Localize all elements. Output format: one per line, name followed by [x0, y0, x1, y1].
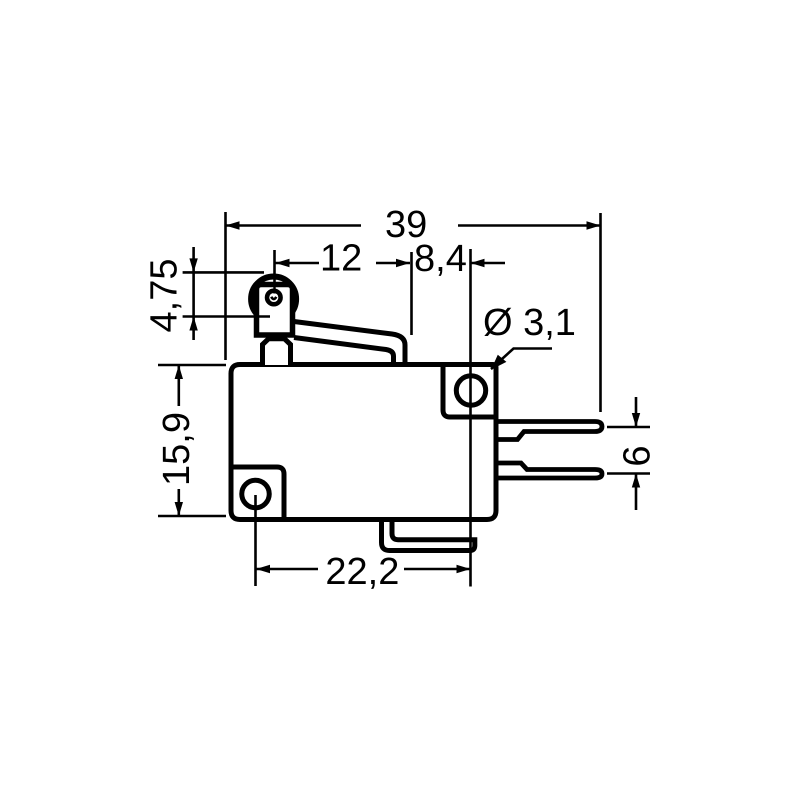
extension/centre line through top-right hole (x=470.5) [469, 249, 472, 587]
dim 6 bottom extension line [607, 472, 650, 475]
dim 6 line above [635, 397, 638, 427]
dim 39 left extension line [224, 212, 227, 360]
roller centre line [273, 250, 276, 306]
plunger dome [263, 339, 291, 365]
bottom-left hole box [231, 467, 284, 520]
bottom-left mounting hole [242, 480, 270, 508]
arrow 15,9 bottom (points down) [175, 502, 183, 516]
arrow 15,9 top (points up) [175, 365, 183, 379]
roller centre line over pin [273, 286, 275, 294]
terminal 2 (lower) [496, 463, 602, 478]
arrow 39 right [587, 221, 601, 229]
arrow 6 bottom (points up) [632, 474, 640, 488]
arrow 6 top (points down) [632, 413, 640, 427]
svg-text:4,75: 4,75 [144, 259, 186, 333]
roller pin [267, 291, 281, 305]
dim 6 top extension line [607, 426, 650, 429]
arrow 4,75 top (points down) [189, 258, 197, 272]
dim 4,75 vertical line [192, 247, 195, 340]
dim 39 right extension line [599, 213, 602, 412]
svg-text:6: 6 [617, 445, 659, 466]
svg-text:8,4: 8,4 [414, 238, 467, 280]
roller wheel [251, 277, 296, 322]
dim 15,9 bottom extension line (body bottom) [158, 515, 226, 518]
terminal 1 (upper) [496, 422, 602, 440]
lever top edge [294, 322, 405, 364]
dim 15,9 line upper segment [178, 365, 181, 406]
lever bottom edge [294, 338, 394, 364]
svg-text:22,2: 22,2 [325, 551, 399, 593]
arrow 22,2 left [256, 565, 270, 573]
dim 4,75 top extension line (roller top) [183, 271, 264, 274]
svg-text:12: 12 [320, 238, 362, 280]
arrow 4,75 bottom (points up) [189, 317, 197, 331]
arrow 12 left [276, 259, 290, 267]
dim 12 line right segment [376, 262, 410, 265]
pin notch [271, 297, 276, 299]
dim 22,2 line left segment [256, 568, 318, 571]
top-right hole box [443, 365, 496, 418]
dim 39 line left segment [226, 224, 362, 227]
top-right mounting hole [456, 376, 485, 405]
arrow leader 3,1 [491, 355, 506, 370]
extension line lever end (x=411.5) [410, 252, 413, 335]
svg-text:Ø 3,1: Ø 3,1 [483, 302, 576, 344]
roller bracket [257, 285, 293, 336]
dim 22,2 left extension line (hole centre) [254, 495, 257, 586]
dim 22,2 line right segment [404, 568, 471, 571]
arrow 39 left [226, 221, 240, 229]
dim 6 line below [635, 474, 638, 511]
dim 39 line right segment [458, 224, 601, 227]
arrow 12 right / 8,4 left [396, 259, 410, 267]
arrow 22,2 right [457, 565, 471, 573]
bottom solder tab [382, 520, 475, 551]
dim 15,9 top extension line (body top) [158, 364, 226, 367]
dim 8,4 right arrow tail [471, 262, 506, 265]
body rectangle [231, 365, 496, 520]
dim 12 line left segment [276, 262, 320, 265]
arrow 8,4 right [471, 259, 485, 267]
dim 15,9 line lower segment [178, 489, 181, 516]
svg-text:15,9: 15,9 [156, 412, 198, 486]
leader line for hole dia 3,1 [491, 349, 552, 370]
dim 4,75 bottom extension line (roller centre) [183, 315, 270, 317]
